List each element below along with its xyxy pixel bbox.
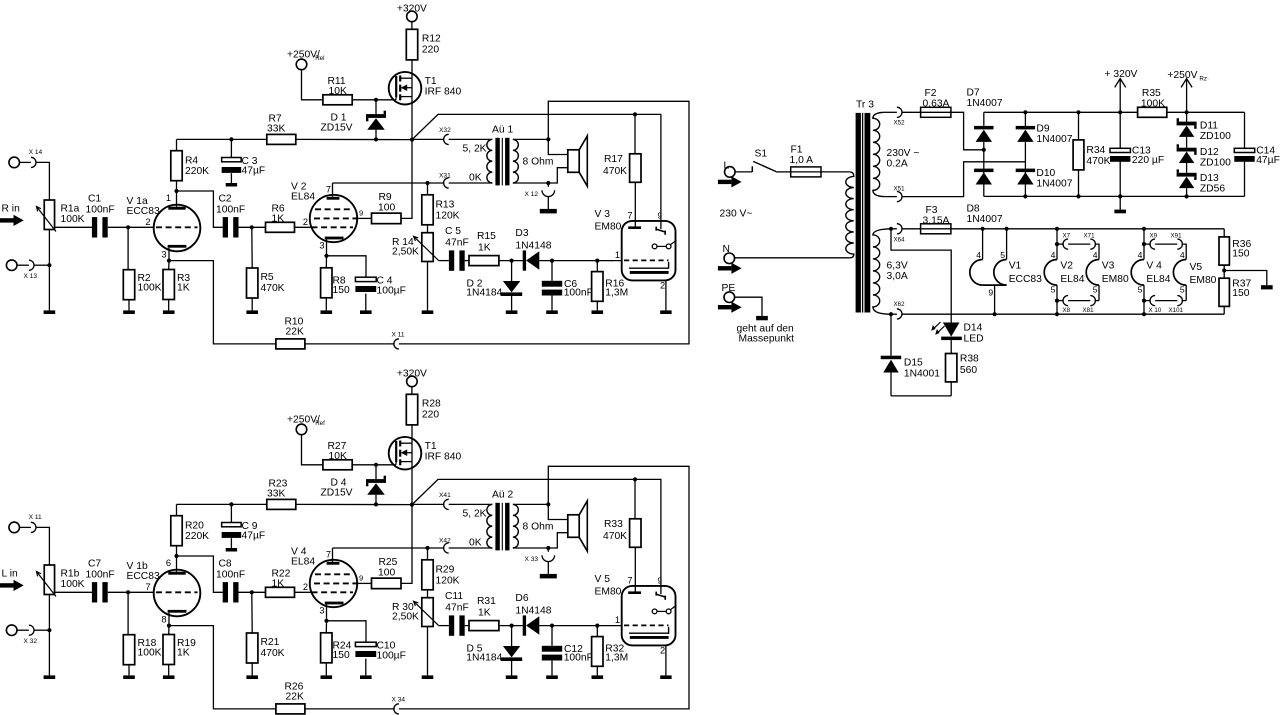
ground — [660, 675, 671, 679]
svg-text:0.2A: 0.2A — [887, 158, 908, 169]
svg-text:9: 9 — [988, 287, 993, 297]
wire jumper — [1155, 243, 1177, 245]
svg-text:3: 3 — [319, 241, 324, 251]
svg-text:1N4007: 1N4007 — [1036, 178, 1072, 189]
ground — [226, 183, 237, 187]
heater V1 ECC83 — [982, 229, 984, 260]
arrow PE — [718, 305, 732, 309]
resistor R26 22K — [169, 626, 276, 709]
wire rail — [296, 503, 412, 505]
svg-text:100K: 100K — [138, 282, 162, 293]
svg-text:1K: 1K — [177, 282, 190, 293]
zener D12 ZD100 — [1177, 148, 1197, 152]
wire — [439, 625, 449, 627]
cathode pin 2 — [665, 280, 667, 310]
diode D9 1N4007 — [1016, 126, 1035, 129]
svg-text:100K: 100K — [61, 579, 85, 590]
svg-text:5: 5 — [1051, 284, 1056, 294]
resistor R28 220 — [406, 394, 417, 425]
resistor R9 100 — [357, 217, 372, 219]
resistor R13 120K — [427, 183, 429, 195]
connector X81 — [1090, 296, 1095, 306]
ground — [321, 310, 333, 314]
svg-text:C11: C11 — [445, 591, 463, 602]
zener diode D 1 ZD15V — [375, 100, 377, 114]
wire — [449, 503, 493, 505]
transformer secondary 230V — [873, 112, 884, 196]
wire — [239, 591, 266, 593]
anode plate — [168, 207, 185, 210]
triode V 1b ECC83 — [154, 570, 201, 617]
resistor R18 100K — [127, 592, 129, 634]
svg-text:1N4007: 1N4007 — [967, 214, 1003, 225]
anode — [628, 226, 641, 229]
svg-text:47µF: 47µF — [242, 531, 266, 542]
svg-text:ZD15V: ZD15V — [321, 123, 353, 134]
cathode — [325, 237, 344, 240]
anode — [628, 591, 641, 594]
connector X 13 — [6, 260, 17, 271]
rail to +250V — [1167, 111, 1245, 113]
svg-text:100nF: 100nF — [216, 570, 245, 581]
svg-text:5, 2K: 5, 2K — [463, 144, 487, 155]
resistor R22 1K — [266, 587, 295, 597]
svg-text:8 Ohm: 8 Ohm — [523, 157, 554, 168]
svg-text:IRF 840: IRF 840 — [425, 87, 462, 98]
capacitor C10 100µF — [327, 621, 367, 642]
wire — [821, 171, 850, 173]
wire — [465, 260, 469, 262]
svg-text:150: 150 — [1232, 288, 1249, 299]
svg-text:R21: R21 — [261, 637, 280, 648]
svg-text:C 5: C 5 — [445, 226, 461, 237]
wire — [34, 629, 49, 631]
ground — [163, 310, 175, 314]
svg-text:1N4184: 1N4184 — [466, 653, 502, 664]
pentode V 2 EL84 — [310, 195, 357, 242]
wire — [48, 630, 50, 675]
ground — [123, 310, 135, 314]
svg-text:R20: R20 — [185, 521, 204, 532]
svg-text:5: 5 — [1180, 284, 1185, 294]
svg-text:Tr 3: Tr 3 — [856, 99, 874, 110]
svg-text:3,0A: 3,0A — [887, 271, 908, 282]
svg-text:470K: 470K — [603, 531, 627, 542]
heater rail top — [951, 228, 1224, 230]
ground — [1261, 285, 1273, 289]
ground — [546, 675, 558, 679]
transformer secondary 6,3V — [873, 229, 891, 314]
wire gate — [395, 462, 397, 465]
resistor R19 1K — [168, 626, 170, 635]
svg-text:C7: C7 — [88, 559, 101, 570]
svg-text:X81: X81 — [1083, 307, 1095, 314]
potentiometer R 14 2,50K — [427, 225, 429, 233]
mosfet T1 IRF 840 — [389, 72, 422, 105]
wire feedback loop — [399, 466, 689, 709]
eye target — [652, 609, 657, 614]
ground — [163, 675, 175, 679]
svg-text:470K: 470K — [261, 648, 285, 659]
grid 9 hook — [655, 227, 657, 231]
svg-text:100nF: 100nF — [86, 205, 115, 216]
svg-text:X31: X31 — [439, 173, 451, 180]
wire — [295, 226, 312, 228]
wire — [177, 191, 223, 227]
wire to ground — [1224, 271, 1267, 286]
svg-text:EM80: EM80 — [595, 586, 622, 597]
capacitor C1 100nF — [92, 217, 97, 237]
ground — [546, 310, 558, 314]
svg-text:D9: D9 — [1036, 124, 1049, 135]
connector X 11 — [9, 522, 20, 533]
svg-text:R33: R33 — [604, 519, 623, 530]
svg-text:Massepunkt: Massepunkt — [739, 334, 795, 345]
svg-text:F2: F2 — [925, 88, 937, 99]
svg-text:7: 7 — [145, 582, 150, 592]
wire — [634, 182, 636, 226]
wire AC2 — [902, 162, 1025, 197]
resistor R10 22K — [169, 261, 276, 344]
svg-text:220K: 220K — [185, 531, 209, 542]
ground — [123, 675, 135, 679]
capacitor C8 100nF — [223, 582, 228, 602]
capacitor C 5 47nF — [449, 250, 454, 270]
connector X9 — [1142, 242, 1146, 246]
svg-text:1: 1 — [615, 615, 620, 625]
anode plate — [327, 197, 340, 200]
speaker 8 Ohm — [568, 150, 579, 173]
svg-text:1N4007: 1N4007 — [967, 98, 1003, 109]
wire source — [411, 97, 413, 140]
wire to grid line — [412, 479, 661, 594]
svg-text:120K: 120K — [436, 575, 460, 586]
svg-text:8: 8 — [161, 615, 166, 625]
svg-text:33K: 33K — [267, 488, 285, 499]
svg-text:EL84: EL84 — [291, 557, 315, 568]
heater V2 EL84 — [1056, 229, 1058, 260]
resistor R21 470K — [251, 592, 253, 633]
wire rail — [177, 503, 267, 505]
ground — [246, 310, 258, 314]
grid g3 — [315, 573, 353, 575]
capacitor C7 100nF — [92, 582, 97, 602]
wire — [305, 708, 395, 710]
svg-text:R4: R4 — [185, 156, 198, 167]
svg-text:+250V: +250V — [1167, 70, 1197, 81]
wire — [634, 547, 636, 591]
ground — [422, 310, 434, 314]
diode D 5 1N4184 — [511, 626, 513, 646]
speaker 8 Ohm — [568, 515, 579, 538]
svg-text:560: 560 — [960, 365, 977, 376]
svg-text:1N4148: 1N4148 — [515, 240, 551, 251]
ground — [592, 675, 604, 679]
svg-text:D6: D6 — [515, 593, 528, 604]
wire — [352, 464, 396, 466]
wire — [36, 162, 49, 200]
svg-text:22K: 22K — [286, 327, 304, 338]
resistor R24 150 — [325, 621, 327, 633]
rail bottom DC — [984, 195, 1245, 197]
svg-text:X 13: X 13 — [24, 273, 38, 280]
capacitor C 9 47µF — [230, 504, 232, 522]
diode D8 — [974, 169, 993, 173]
svg-text:+320V: +320V — [397, 3, 427, 14]
svg-text:EM80: EM80 — [595, 221, 622, 232]
cathode pin 2 — [665, 645, 667, 675]
connector X 11 — [394, 339, 399, 349]
svg-text:22K: 22K — [286, 692, 304, 703]
svg-text:ZD15V: ZD15V — [321, 488, 353, 499]
svg-text:7: 7 — [326, 550, 331, 560]
resistor R8 150 — [325, 256, 327, 268]
svg-text:230 V~: 230 V~ — [720, 208, 753, 219]
svg-text:1: 1 — [166, 193, 171, 203]
svg-text:V3: V3 — [1102, 261, 1115, 272]
svg-text:D14: D14 — [964, 323, 983, 334]
svg-text:5: 5 — [1138, 284, 1143, 294]
svg-text:X62: X62 — [894, 301, 906, 308]
screen electrode — [629, 262, 669, 268]
connector X 34 — [394, 704, 399, 714]
svg-text:6,3V: 6,3V — [887, 261, 908, 272]
svg-text:X 33: X 33 — [525, 556, 539, 563]
wire — [305, 343, 395, 345]
wire — [55, 591, 92, 593]
connector X32 — [412, 138, 444, 140]
resistor R3 1K — [168, 261, 170, 270]
connector X 32 — [6, 625, 17, 636]
capacitor C14 47µF — [1244, 112, 1246, 148]
svg-text:Aü 2: Aü 2 — [492, 489, 513, 500]
svg-text:X 10: X 10 — [1149, 307, 1162, 314]
capacitor C 4 100µF — [327, 256, 367, 277]
heater V3 EM80 — [1086, 260, 1099, 286]
svg-text:R15: R15 — [477, 231, 496, 242]
svg-text:10K: 10K — [329, 86, 347, 97]
wire — [34, 264, 49, 266]
svg-text:2,50K: 2,50K — [392, 247, 419, 258]
wire — [513, 182, 548, 184]
svg-text:1N4184: 1N4184 — [466, 288, 502, 299]
svg-text:D3: D3 — [515, 228, 528, 239]
svg-text:Ref: Ref — [315, 420, 325, 427]
svg-text:0K: 0K — [469, 172, 482, 183]
svg-text:Rz·: Rz· — [1199, 75, 1209, 82]
wire — [302, 70, 323, 100]
wire — [302, 435, 323, 465]
wire — [950, 382, 952, 396]
connector X101 — [1177, 296, 1182, 306]
ground — [321, 675, 333, 679]
svg-text:D11: D11 — [1200, 121, 1218, 132]
svg-text:EL84: EL84 — [291, 192, 315, 203]
svg-text:4: 4 — [1138, 250, 1143, 260]
svg-text:100: 100 — [378, 567, 395, 578]
ground — [44, 310, 56, 314]
diode D7 — [974, 126, 993, 129]
wire — [427, 627, 429, 676]
svg-text:C2: C2 — [219, 194, 232, 205]
svg-text:R31: R31 — [477, 596, 496, 607]
svg-text:4: 4 — [1093, 250, 1098, 260]
svg-text:R1a: R1a — [61, 204, 80, 215]
svg-text:9: 9 — [359, 208, 363, 217]
svg-text:47nF: 47nF — [445, 602, 468, 613]
anode plate — [168, 572, 185, 575]
svg-text:X64: X64 — [894, 236, 906, 243]
svg-text:2: 2 — [660, 646, 665, 656]
svg-text:X 11: X 11 — [392, 331, 405, 338]
resistor R27 10K — [323, 460, 352, 470]
svg-text:220: 220 — [422, 44, 439, 55]
svg-text:R28: R28 — [422, 399, 441, 410]
wire — [352, 99, 396, 101]
svg-text:4: 4 — [1180, 250, 1185, 260]
transformer core — [856, 113, 861, 313]
heater rail bottom — [902, 313, 1224, 315]
svg-text:C1: C1 — [88, 194, 101, 205]
wire — [401, 505, 412, 584]
wire — [48, 230, 50, 266]
svg-text:V2: V2 — [1060, 261, 1073, 272]
potentiometer R1b 100K — [44, 565, 54, 595]
pentode V 4 EL84 — [310, 560, 357, 607]
ground massepunkt — [756, 316, 768, 320]
resistor R20 220K — [171, 516, 182, 546]
svg-text:X101: X101 — [1169, 307, 1184, 314]
wire — [55, 226, 92, 228]
svg-text:C8: C8 — [219, 559, 232, 570]
rail top DC — [984, 111, 1138, 113]
grid g3 — [315, 208, 353, 210]
wire — [539, 260, 621, 262]
svg-text:X7: X7 — [1063, 232, 1071, 239]
ground — [660, 310, 671, 314]
wire — [177, 556, 223, 592]
svg-text:ZD100: ZD100 — [1200, 131, 1231, 142]
svg-text:2: 2 — [145, 217, 150, 227]
transformer core — [495, 503, 499, 551]
svg-text:3,15A: 3,15A — [923, 215, 950, 226]
svg-text:1K: 1K — [272, 213, 285, 224]
svg-text:100µF: 100µF — [377, 286, 406, 297]
svg-text:D12: D12 — [1200, 147, 1219, 158]
wire — [548, 168, 568, 183]
grid — [156, 226, 198, 228]
diode D3 1N4148 — [523, 250, 526, 270]
svg-text:R12: R12 — [422, 34, 441, 45]
svg-text:ZD56: ZD56 — [1200, 184, 1225, 195]
svg-text:ECC83: ECC83 — [127, 571, 160, 582]
connector X71 — [1090, 239, 1095, 249]
svg-text:X42: X42 — [439, 538, 451, 545]
svg-text:6: 6 — [166, 558, 171, 568]
svg-text:470K: 470K — [261, 283, 285, 294]
input arrow — [0, 218, 14, 222]
resistor R7 33K — [267, 134, 296, 144]
wire — [548, 533, 568, 548]
svg-text:1N4001: 1N4001 — [904, 368, 940, 379]
svg-text:V 3: V 3 — [595, 209, 611, 220]
resistor R12 220 — [406, 29, 417, 60]
svg-text:R17: R17 — [604, 154, 623, 165]
resistor R16 1,3M — [596, 261, 598, 272]
resistor R15 1K — [469, 256, 499, 266]
wire — [891, 229, 951, 323]
svg-text:X9: X9 — [1150, 232, 1158, 239]
ground — [1119, 196, 1121, 209]
led D14 — [943, 323, 960, 337]
connector X42 — [333, 547, 428, 549]
cathode — [168, 610, 187, 613]
svg-text:R5: R5 — [261, 272, 274, 283]
input arrow — [0, 583, 14, 587]
wire — [108, 591, 154, 593]
svg-text:1,3M: 1,3M — [605, 288, 628, 299]
svg-text:3: 3 — [161, 250, 166, 260]
ground — [44, 675, 56, 679]
diode D10 1N4007 — [1016, 169, 1035, 173]
cathode — [168, 245, 187, 248]
mosfet T1 IRF 840 — [389, 437, 422, 470]
svg-text:7: 7 — [627, 210, 632, 220]
svg-text:1K: 1K — [272, 578, 285, 589]
capacitor C2 100nF — [223, 217, 228, 237]
svg-text:R25: R25 — [379, 557, 398, 568]
svg-text:R9: R9 — [379, 192, 392, 203]
svg-text:5: 5 — [1093, 284, 1098, 294]
resistor R2 100K — [127, 227, 129, 269]
connector X31 — [333, 182, 428, 184]
svg-text:+ 320V: + 320V — [1105, 69, 1138, 80]
resistor R11 10K — [323, 95, 352, 105]
svg-text:47µF: 47µF — [1256, 155, 1280, 166]
wire — [411, 60, 413, 78]
resistor R36 150 — [1223, 229, 1225, 237]
svg-text:+320V: +320V — [397, 368, 427, 379]
terminal +250V/ — [296, 59, 307, 70]
ground — [592, 310, 604, 314]
svg-text:ECC83: ECC83 — [127, 206, 160, 217]
svg-text:100nF: 100nF — [564, 653, 593, 664]
resistor R17 470K — [634, 114, 636, 153]
svg-text:S1: S1 — [755, 149, 768, 160]
svg-text:X 14: X 14 — [29, 149, 43, 156]
connector X52 — [884, 111, 897, 113]
ground — [506, 675, 518, 679]
svg-text:EM80: EM80 — [1102, 274, 1129, 285]
svg-text:X 12: X 12 — [525, 191, 539, 198]
resistor R33 470K — [634, 479, 636, 518]
svg-text:4: 4 — [1051, 250, 1056, 260]
svg-text:R1b: R1b — [61, 569, 80, 580]
svg-text:V1: V1 — [1009, 261, 1022, 272]
terminal +250V/ — [296, 424, 307, 435]
zener D13 ZD56 — [1177, 173, 1197, 177]
connector X8 — [1055, 299, 1059, 303]
connector X51 — [884, 196, 897, 198]
potentiometer R1a 100K — [44, 200, 54, 230]
svg-text:EL84: EL84 — [1146, 274, 1170, 285]
svg-text:100K: 100K — [61, 214, 85, 225]
ground — [226, 548, 237, 552]
resistor R23 33K — [267, 499, 296, 509]
svg-text:1,3M: 1,3M — [605, 653, 628, 664]
svg-text:X8: X8 — [1063, 307, 1071, 314]
svg-text:X71: X71 — [1084, 232, 1096, 239]
